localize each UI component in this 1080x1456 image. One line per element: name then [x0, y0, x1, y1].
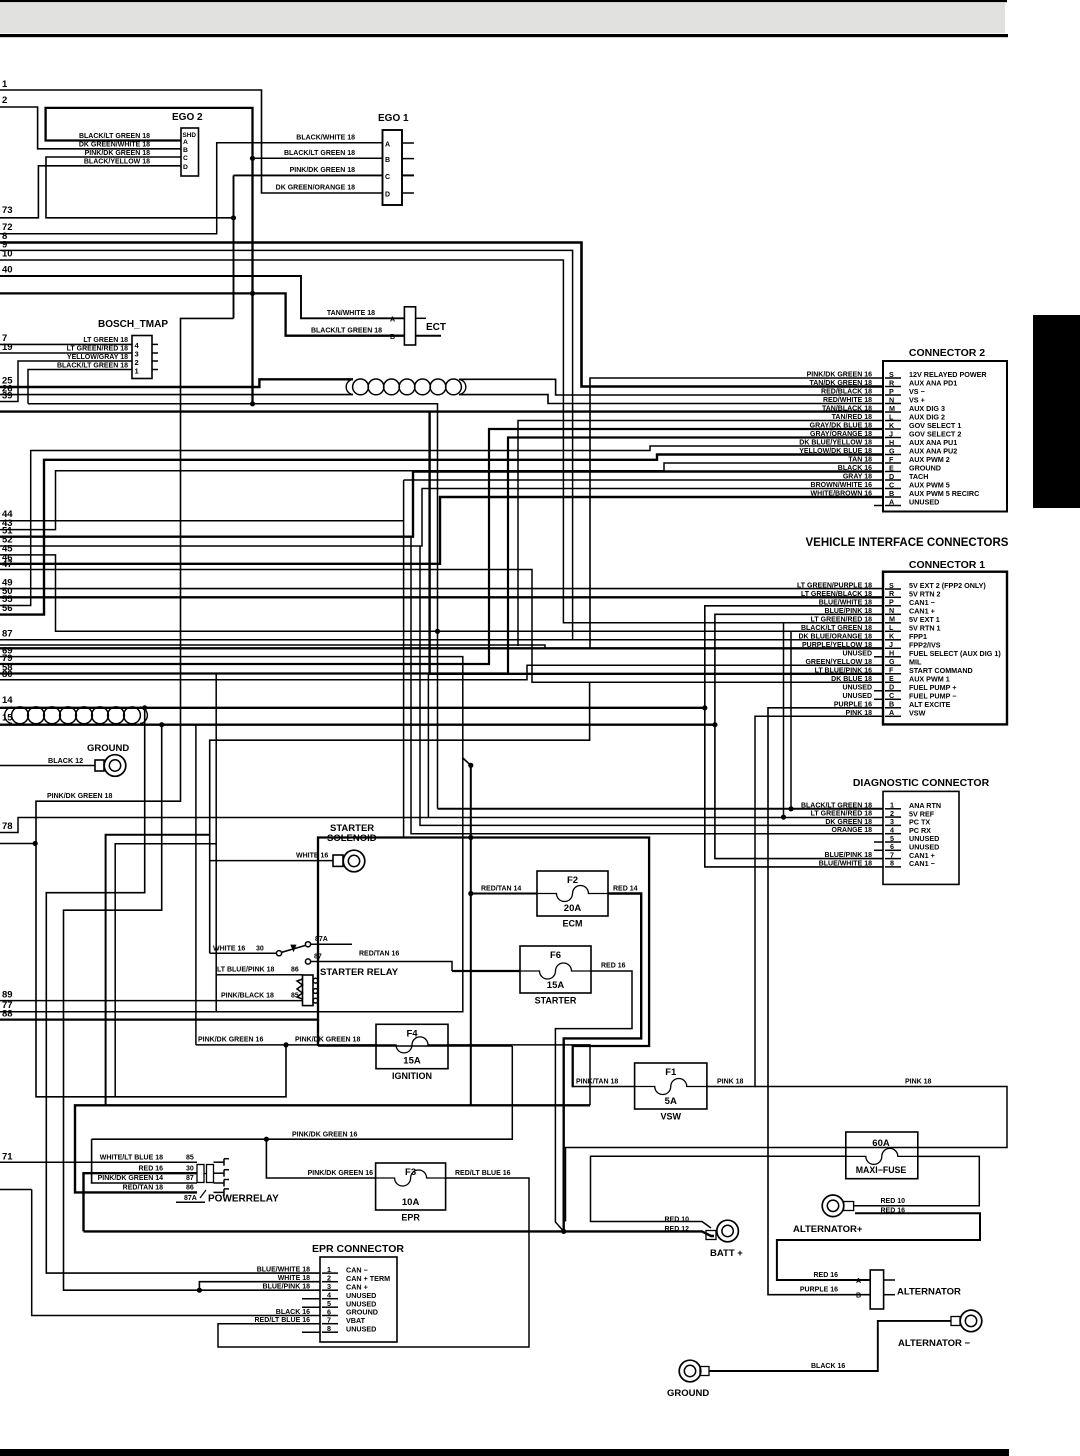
svg-text:D: D — [183, 164, 188, 171]
svg-text:RED 14: RED 14 — [613, 886, 638, 893]
svg-text:89: 89 — [2, 990, 13, 1001]
junction 5V REF — [781, 815, 786, 820]
wire F4 output to powerrelay feed — [448, 1045, 590, 1105]
svg-text:C: C — [183, 155, 188, 162]
wire solenoid feed drop from connector1 E — [210, 682, 590, 953]
svg-text:YELLOW/GRAY 18: YELLOW/GRAY 18 — [67, 354, 128, 361]
wire diagnostic pin1 row thick — [438, 808, 884, 810]
svg-text:PINK/DK GREEN 16: PINK/DK GREEN 16 — [292, 1132, 357, 1139]
svg-text:85: 85 — [186, 1155, 194, 1162]
svg-text:71: 71 — [2, 1152, 13, 1163]
svg-text:B: B — [183, 147, 188, 154]
svg-text:87: 87 — [2, 629, 13, 640]
wire connector1 L to diagnostic 1 riser — [790, 631, 792, 809]
wire BLACK/LT GREEN thick to ECT pin B — [0, 293, 404, 335]
svg-text:78: 78 — [2, 821, 13, 832]
junction wire15 CAN+ branch — [159, 722, 164, 727]
svg-text:60A: 60A — [872, 1138, 890, 1149]
junction EGO1 pin B on BLACK/LT GREEN bus — [250, 156, 255, 161]
svg-text:EGO 1: EGO 1 — [378, 113, 409, 124]
wire RED 16 alternator+ to alternator pin A — [777, 1213, 980, 1280]
junction PINK/DK GREEN at F4 feed — [283, 1042, 288, 1047]
ECT pin stubs — [416, 317, 426, 319]
wire thick L-drop left of solenoid — [106, 835, 210, 1106]
svg-text:BLACK 12: BLACK 12 — [48, 756, 83, 765]
svg-text:EPR: EPR — [401, 1213, 420, 1223]
svg-text:DIAGNOSTIC CONNECTOR: DIAGNOSTIC CONNECTOR — [853, 777, 990, 789]
svg-text:D: D — [385, 192, 390, 199]
svg-text:UNUSED: UNUSED — [842, 684, 872, 691]
svg-text:CONNECTOR 1: CONNECTOR 1 — [909, 559, 985, 571]
svg-text:IGNITION: IGNITION — [392, 1071, 432, 1081]
fuse F2 ECM — [537, 871, 608, 916]
CONNECTOR 1 box — [883, 572, 1007, 725]
wire connector2 D row — [404, 479, 883, 481]
svg-text:5A: 5A — [665, 1096, 677, 1107]
svg-text:PINK 18: PINK 18 — [717, 1079, 744, 1086]
svg-text:19: 19 — [2, 342, 13, 353]
wire thick feed to powerrelay 86 — [75, 1105, 590, 1192]
svg-text:RED 16: RED 16 — [138, 1166, 163, 1173]
BATT+ terminal — [706, 1231, 716, 1240]
starter relay coil zigzag — [297, 979, 303, 999]
svg-text:B: B — [385, 157, 390, 164]
svg-text:47: 47 — [2, 559, 13, 570]
svg-text:RED 10: RED 10 — [664, 1217, 689, 1224]
svg-text:15A: 15A — [547, 980, 565, 991]
wire riser to diagnostic row2 — [427, 674, 429, 817]
svg-text:30: 30 — [256, 946, 264, 953]
fuse F6 STARTER — [520, 946, 591, 993]
svg-text:PINK/DK GREEN 18: PINK/DK GREEN 18 — [290, 167, 355, 174]
svg-text:BLACK/LT GREEN 18: BLACK/LT GREEN 18 — [311, 328, 382, 335]
svg-text:CONNECTOR 2: CONNECTOR 2 — [909, 347, 985, 359]
wire RED/TAN thick drop to powerrelay 86 — [470, 765, 472, 1105]
svg-text:86: 86 — [186, 1185, 194, 1192]
junction BLACK/LT GREEN at connector1 L row — [435, 629, 440, 634]
wire diagnostic pin3 feed riser — [420, 546, 883, 825]
ALTERNATOR+ terminal — [844, 1202, 854, 1211]
wire unlabeled thin companion — [0, 645, 545, 648]
svg-text:ECT: ECT — [426, 322, 446, 333]
fuse F3 EPR — [376, 1163, 446, 1210]
wire BLACK 16 to EPR pin 6 — [32, 1190, 320, 1316]
svg-text:BLACK/LT GREEN 18: BLACK/LT GREEN 18 — [79, 133, 150, 140]
svg-text:RED/TAN 18: RED/TAN 18 — [123, 1185, 163, 1192]
wire LT BLUE/PINK drop from connector1 F — [215, 674, 217, 1012]
wire connector1 N CAN1+ to diagnostic 7 — [715, 614, 883, 858]
junction wire14 CAN- branch — [142, 705, 147, 710]
svg-text:VSW: VSW — [660, 1112, 681, 1122]
starter relay contact 87 wire RED/TAN 16 to F6 — [305, 959, 310, 964]
starter relay coil terminals — [313, 978, 318, 983]
svg-text:EGO 2: EGO 2 — [172, 112, 203, 123]
svg-text:40: 40 — [2, 265, 13, 276]
junction RED 14 at RED 12 line — [561, 1229, 566, 1234]
wire thick into F6 — [452, 970, 520, 972]
svg-text:15A: 15A — [403, 1056, 421, 1067]
junction ANA RTN — [788, 806, 793, 811]
svg-text:PINK 18: PINK 18 — [905, 1079, 932, 1086]
junction PINK/TAN run at RED/TAN vertical — [468, 835, 473, 840]
wire PINK/DK GREEN 16 relayed power drop to F4 — [195, 725, 197, 1045]
wire CAN- drop to EPR pin 1 — [46, 708, 320, 1273]
fuse F1 VSW — [635, 1063, 707, 1109]
svg-text:TAN/WHITE 18: TAN/WHITE 18 — [327, 310, 375, 317]
wire thin L-drop to coil feed — [115, 844, 216, 1097]
bottom black bar — [0, 1449, 1009, 1456]
svg-text:30: 30 — [186, 1166, 194, 1173]
svg-text:F2: F2 — [567, 875, 578, 886]
wire vertical link to PINK/DK GREEN 16 line — [511, 1046, 513, 1139]
wire RED/TAN riser diagonal — [463, 758, 471, 765]
ALTERNATOR connector box — [870, 1270, 883, 1309]
EGO 2 connector box — [181, 128, 199, 176]
wire BLACK 12 to ground lug — [0, 765, 95, 767]
svg-text:ECM: ECM — [563, 919, 583, 929]
svg-text:GROUND: GROUND — [667, 1388, 709, 1399]
wire connector2 L row — [518, 421, 883, 647]
starter relay contact 87A — [305, 942, 310, 947]
svg-text:UNUSED: UNUSED — [909, 498, 939, 507]
GROUND lug lower — [700, 1367, 709, 1376]
wire diagnostic pin4 feed riser — [411, 537, 883, 834]
svg-text:20A: 20A — [564, 903, 582, 914]
svg-text:EPR CONNECTOR: EPR CONNECTOR — [312, 1243, 404, 1255]
svg-text:PINK/DK GREEN 16: PINK/DK GREEN 16 — [308, 1170, 373, 1177]
svg-text:85: 85 — [291, 993, 299, 1000]
svg-text:ALTERNATOR −: ALTERNATOR − — [898, 1338, 970, 1349]
svg-text:BLACK/LT GREEN 18: BLACK/LT GREEN 18 — [57, 363, 128, 370]
starter relay coil box — [303, 975, 314, 1006]
svg-text:26: 26 — [2, 384, 13, 395]
svg-text:BLACK/LT GREEN 18: BLACK/LT GREEN 18 — [284, 150, 355, 157]
ALTERNATOR- terminal — [951, 1317, 960, 1326]
svg-text:C: C — [385, 174, 390, 181]
svg-text:PURPLE 16: PURPLE 16 — [800, 1287, 838, 1294]
svg-text:PINK/DK GREEN 18: PINK/DK GREEN 18 — [47, 793, 112, 800]
svg-text:1: 1 — [2, 79, 8, 90]
fuse F4 IGNITION — [376, 1024, 448, 1068]
svg-text:PINK/DK GREEN 18: PINK/DK GREEN 18 — [295, 1037, 360, 1044]
svg-text:80: 80 — [2, 669, 13, 680]
junction PINK/DK GREEN node — [231, 215, 236, 220]
svg-text:DK GREEN/WHITE 18: DK GREEN/WHITE 18 — [79, 142, 150, 149]
svg-text:WHITE 16: WHITE 16 — [213, 946, 245, 953]
wire thick PURPLE/YELLOW connector1 J row full — [0, 647, 883, 649]
svg-text:VSW: VSW — [909, 709, 926, 718]
svg-text:STARTER RELAY: STARTER RELAY — [320, 967, 399, 978]
svg-text:2: 2 — [2, 95, 7, 106]
top gray header band — [0, 2, 1005, 33]
wire thick LT BLUE/PINK START COMMAND branch to connector1 F — [430, 412, 883, 674]
svg-text:A: A — [385, 142, 390, 149]
svg-text:PINK/TAN 18: PINK/TAN 18 — [576, 1079, 618, 1086]
svg-text:LT GREEN/RED 18: LT GREEN/RED 18 — [67, 346, 128, 353]
svg-text:CAN1 −: CAN1 − — [909, 859, 935, 868]
twisted pair chain VS sensor — [346, 379, 353, 394]
svg-text:RED 10: RED 10 — [880, 1198, 905, 1205]
svg-text:PINK/DK GREEN 16: PINK/DK GREEN 16 — [198, 1037, 263, 1044]
svg-text:BATT +: BATT + — [710, 1248, 743, 1259]
junction CAN1- at wire14 — [702, 705, 707, 710]
svg-text:73: 73 — [2, 205, 13, 216]
svg-text:F6: F6 — [550, 950, 561, 961]
TMAP pin stubs — [152, 343, 158, 345]
svg-text:PINK/DK GREEN 18: PINK/DK GREEN 18 — [85, 150, 150, 157]
svg-text:56: 56 — [2, 603, 13, 614]
svg-text:ALTERNATOR: ALTERNATOR — [897, 1287, 961, 1298]
wire VS- chain to connector2 P — [459, 379, 883, 395]
svg-text:STARTER: STARTER — [535, 996, 577, 1006]
DIAGNOSTIC CONNECTOR box — [883, 791, 959, 884]
junction CAN1+ at wire15 — [712, 722, 717, 727]
svg-text:A: A — [856, 1278, 861, 1285]
svg-text:RED 16: RED 16 — [813, 1272, 838, 1279]
svg-text:BLACK/WHITE 18: BLACK/WHITE 18 — [296, 135, 355, 142]
BOSCH_TMAP connector box — [132, 336, 152, 379]
wire thick TAN/BLACK connector2 M row full — [0, 410, 883, 412]
wire connector1 M to diagnostic 2 riser — [784, 623, 884, 817]
svg-text:LT GREEN/RED 18: LT GREEN/RED 18 — [811, 811, 872, 818]
top border hairline — [0, 0, 1007, 2]
svg-text:14: 14 — [2, 695, 13, 706]
svg-text:SHD: SHD — [183, 132, 197, 139]
EGO1 pin stubs — [402, 142, 414, 144]
wire RED 10 maxi-fuse to BATT+ — [591, 1156, 846, 1228]
wire EGO1 pin C PINK/DK GREEN riser — [233, 175, 235, 318]
right edge black tab — [1033, 315, 1080, 508]
svg-text:RED/TAN 14: RED/TAN 14 — [481, 886, 521, 893]
svg-text:RED/LT BLUE 16: RED/LT BLUE 16 — [455, 1170, 511, 1177]
junction BLACK/LT GREEN bus at ECT feed — [250, 291, 255, 296]
wire connector1 P CAN1- to diagnostic 8 — [705, 606, 883, 867]
EGO 1 connector box — [383, 130, 403, 205]
svg-text:B: B — [856, 1293, 861, 1300]
svg-text:10A: 10A — [402, 1197, 420, 1208]
wire EPR pin2 CAN+TERM jog — [199, 1282, 320, 1291]
starter relay blade — [282, 945, 306, 952]
wire 44 riser joined to PINK/TAN top run — [403, 480, 405, 838]
svg-text:GROUND: GROUND — [87, 743, 129, 754]
svg-text:UNUSED: UNUSED — [842, 693, 872, 700]
svg-text:BLACK 16: BLACK 16 — [811, 1363, 845, 1370]
svg-text:MAXI−FUSE: MAXI−FUSE — [856, 1165, 907, 1175]
CONNECTOR 2 box — [883, 361, 1007, 512]
svg-text:UNUSED: UNUSED — [842, 650, 872, 657]
junction CAN+ terminator — [197, 1288, 202, 1293]
wire EGO2 pin C PINK/DK GREEN — [46, 157, 234, 218]
svg-text:87A: 87A — [184, 1195, 197, 1202]
svg-text:ALTERNATOR+: ALTERNATOR+ — [793, 1224, 863, 1235]
junction RED/TAN diagonal — [468, 763, 473, 768]
svg-text:10: 10 — [2, 249, 13, 260]
svg-text:RED 16: RED 16 — [601, 963, 626, 970]
svg-text:LT BLUE/PINK 18: LT BLUE/PINK 18 — [217, 967, 275, 974]
svg-text:RED/TAN 16: RED/TAN 16 — [359, 951, 399, 958]
svg-text:F1: F1 — [665, 1067, 677, 1078]
ECT connector box — [404, 307, 415, 345]
wire BLACK/LT GREEN net horizontal — [28, 404, 438, 809]
svg-text:WHITE 16: WHITE 16 — [296, 853, 328, 860]
svg-text:1: 1 — [135, 367, 139, 376]
powerrelay symbol — [197, 1165, 204, 1183]
wire connector2 S row to thick J bus — [590, 378, 883, 648]
svg-text:LT GREEN 18: LT GREEN 18 — [83, 337, 128, 344]
svg-text:UNUSED: UNUSED — [346, 1324, 376, 1333]
svg-text:VEHICLE INTERFACE CONNECTORS: VEHICLE INTERFACE CONNECTORS — [806, 537, 1009, 549]
svg-text:BOSCH_TMAP: BOSCH_TMAP — [98, 319, 168, 330]
wire CAN+ drop to EPR pin 3 — [64, 725, 321, 1290]
wire TMAP pin 1 BLACK/LT GREEN drop — [28, 370, 132, 404]
wire EGO2 pin A BLACK/LT GREEN bus — [46, 108, 253, 404]
svg-text:87: 87 — [186, 1175, 194, 1182]
MAXI-FUSE 60A — [846, 1132, 918, 1179]
junction unlabeled stub at PINK/DK GREEN drop — [33, 841, 38, 846]
wire left stub to EPR ground — [0, 1189, 32, 1191]
twisted pair chain CAN wires — [5, 707, 12, 724]
svg-text:DK GREEN/ORANGE 18: DK GREEN/ORANGE 18 — [276, 185, 355, 192]
svg-text:86: 86 — [291, 967, 299, 974]
svg-text:BLACK/YELLOW 18: BLACK/YELLOW 18 — [84, 159, 150, 166]
svg-text:PINK/BLACK 18: PINK/BLACK 18 — [221, 993, 274, 1000]
junction EGO2-A bus to BLACK/LT GREEN net — [250, 401, 255, 406]
svg-text:FUEL SELECT (AUX DIG 1): FUEL SELECT (AUX DIG 1) — [909, 649, 1001, 658]
svg-text:A: A — [183, 139, 188, 146]
svg-text:PINK/DK GREEN 14: PINK/DK GREEN 14 — [98, 1175, 163, 1182]
svg-text:WHITE/LT BLUE 18: WHITE/LT BLUE 18 — [100, 1155, 163, 1162]
svg-text:POWERRELAY: POWERRELAY — [208, 1194, 279, 1205]
svg-text:88: 88 — [2, 1009, 13, 1020]
EPR CONNECTOR box — [320, 1257, 397, 1342]
wire VS+ chain to connector2 N — [459, 395, 883, 404]
top rule — [0, 34, 1008, 37]
